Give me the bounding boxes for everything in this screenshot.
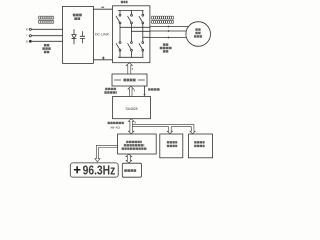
fault signal wire down	[144, 86, 146, 94]
input reactor L1	[38, 16, 54, 24]
label 整流和滤波 (simulated CJK)	[73, 15, 82, 19]
switch S4 (leg1 lower)	[116, 27, 121, 57]
display icon divide	[74, 166, 81, 173]
label TTL电平 PWM信号 (simulated CJK)	[104, 89, 116, 93]
label 变频器 (VFD title, simulated CJK)	[121, 1, 128, 4]
SA4828 box	[113, 97, 151, 119]
keypad double arrow (MCU to keypad)	[126, 154, 132, 163]
display box (frequency readout)	[70, 163, 118, 177]
label 故障信号 (simulated CJK)	[148, 88, 160, 90]
svg-text:R: R	[26, 28, 28, 31]
wire phase Y input	[32, 35, 63, 37]
label 三相异步电动机 (simulated CJK)	[194, 30, 202, 37]
svg-text:DC LINK: DC LINK	[95, 33, 110, 37]
label 系统高工频电源 (mains supply, simulated CJK)	[42, 45, 51, 52]
output reactor L2	[151, 16, 174, 24]
bus double arrow SA4828-MCU	[128, 119, 134, 134]
label 控制键盘 (simulated CJK)	[124, 169, 136, 172]
switch S3 (leg3 upper)	[139, 10, 144, 37]
label plus	[102, 57, 104, 59]
switch S2 (leg2 upper)	[128, 10, 133, 31]
switch S1 (leg1 upper)	[116, 10, 121, 27]
wire DC link top	[93, 8, 112, 10]
capacitor C1	[80, 32, 85, 44]
motor M (three-phase async motor)	[186, 22, 211, 47]
switch S5 (leg2 lower)	[128, 31, 133, 57]
trigger unit box	[112, 74, 147, 86]
bus drop into peripheral box B	[190, 125, 195, 134]
inverter top bus	[118, 9, 143, 11]
PWM signal hollow up arrow (SA4828 to trigger)	[128, 86, 134, 96]
switch S6 (leg3 lower)	[139, 37, 144, 57]
inverter bottom bus	[118, 56, 143, 58]
junction dot W	[168, 37, 170, 39]
inverter box	[113, 6, 150, 63]
keypad box	[122, 163, 141, 177]
wire output W	[150, 37, 187, 39]
wire phase U tap	[120, 26, 150, 28]
MCU box (single-chip processor)	[118, 134, 157, 154]
wire output V	[150, 30, 187, 32]
svg-text:SA4828: SA4828	[126, 107, 138, 111]
peripheral box A	[160, 134, 183, 158]
wire DC link bottom	[93, 59, 112, 61]
svg-text:96.3Hz: 96.3Hz	[83, 162, 116, 177]
wire phase V tap	[132, 30, 150, 32]
bus drop into peripheral box A	[167, 127, 172, 134]
diode D1	[72, 30, 76, 45]
label 触发单元 (simulated CJK) with side dashes	[115, 79, 121, 81]
peripheral box B	[189, 134, 213, 158]
wire phase R input	[32, 28, 63, 30]
rectifier box	[63, 6, 94, 63]
svg-text:(4B~AD): (4B~AD)	[110, 125, 120, 129]
label 频率同步信号 (simulated CJK)	[108, 122, 125, 124]
label 可选择的外围设备 (simulated CJK)	[167, 142, 177, 146]
label 可选择的外围设备 (simulated CJK)	[194, 142, 204, 146]
junction dot V	[168, 30, 170, 32]
gate drive hollow arrow (trigger to inverter)	[126, 63, 132, 74]
junction dot U	[168, 26, 170, 28]
label 三相变频变压电源 (simulated CJK)	[160, 45, 172, 52]
label MCU text 3 lines (simulated CJK)	[122, 142, 147, 149]
data bus horizontal (hollow)	[133, 124, 194, 126]
label minus	[102, 6, 104, 8]
wire output U	[150, 26, 188, 28]
display wire hollow (MCU to display)	[95, 145, 118, 162]
wire phase B input	[32, 40, 63, 42]
wire phase W tap	[143, 36, 150, 38]
